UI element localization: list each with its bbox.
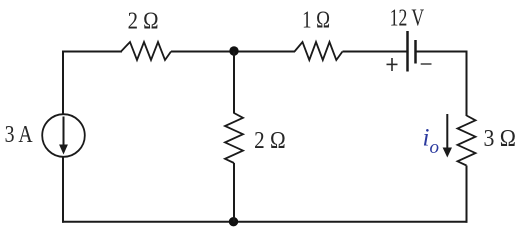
- wire middle vertical top: [233, 52, 235, 114]
- label 12 V: [390, 6, 425, 32]
- wire top-left horizontal: [62, 51, 122, 53]
- svg-text:2 Ω: 2 Ω: [128, 9, 159, 35]
- svg-text:3 Ω: 3 Ω: [483, 126, 516, 152]
- wire top-middle horizontal: [171, 51, 295, 53]
- resistor R2 1 ohm (top right): [295, 42, 343, 60]
- svg-text:3 A: 3 A: [5, 122, 34, 148]
- current arrow io (pointing down): [443, 114, 452, 158]
- label 3 Ohm: [483, 126, 516, 152]
- svg-text:2 Ω: 2 Ω: [254, 128, 286, 154]
- current source I1 arrow (pointing down): [59, 117, 68, 155]
- label 1 Ohm: [302, 8, 330, 34]
- label 2 Ohm (middle): [254, 128, 286, 154]
- svg-text:12 V: 12 V: [390, 6, 425, 32]
- resistor R1 2 ohm (top left): [121, 42, 171, 60]
- label io current (blue italic): [423, 125, 440, 159]
- battery V1 12V negative plate (short): [414, 40, 417, 64]
- current source I1 3A circle: [42, 114, 85, 157]
- label 2 Ohm (top): [128, 9, 159, 35]
- bottom wire: [62, 221, 468, 223]
- wire resistor to battery: [343, 51, 408, 53]
- svg-text:o: o: [430, 137, 440, 158]
- node B junction dot (bottom middle): [229, 217, 238, 226]
- wire left vertical top: [62, 51, 64, 115]
- resistor R3 2 ohm (middle vertical): [225, 113, 243, 163]
- wire middle vertical bottom: [233, 163, 235, 222]
- svg-text:i: i: [423, 125, 430, 152]
- label - (battery polarity): [421, 63, 432, 65]
- node A junction dot (top middle): [229, 46, 238, 55]
- battery V1 12V positive plate (long): [406, 31, 409, 72]
- label 3 A: [5, 122, 34, 148]
- wire left vertical bottom: [62, 157, 64, 223]
- svg-text:1 Ω: 1 Ω: [302, 8, 330, 34]
- label + (battery polarity): [387, 58, 398, 71]
- wire right vertical bottom: [466, 166, 468, 223]
- wire battery to top-right corner and down: [416, 52, 467, 117]
- resistor R4 3 ohm (right vertical): [458, 116, 476, 166]
